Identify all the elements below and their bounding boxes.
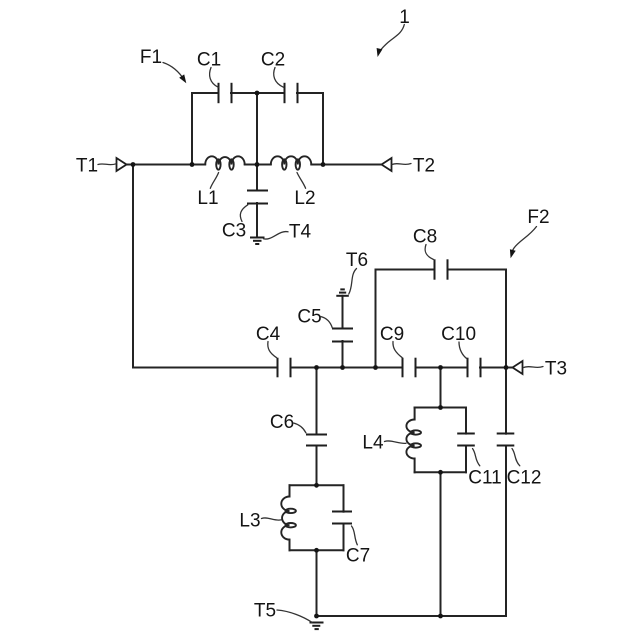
label C8 with leader — [413, 226, 437, 259]
capacitor C8 — [435, 259, 448, 279]
wire: C1 to top-center node — [231, 92, 257, 94]
svg-text:T2: T2 — [413, 155, 435, 176]
label T6 with leader — [346, 250, 368, 294]
wire: L3 tank left above coil — [289, 485, 291, 496]
label C6 with leader — [270, 412, 306, 433]
wire: F2 left node to C9 — [376, 367, 403, 369]
capacitor C10 — [468, 358, 481, 378]
wire: L4 tank right above C11 — [465, 408, 467, 434]
svg-text:T1: T1 — [76, 155, 98, 176]
wire: L2 to F1 right corner — [311, 164, 323, 166]
capacitor C3 — [247, 191, 268, 204]
svg-text:C2: C2 — [261, 49, 285, 70]
capacitor C11 — [457, 434, 475, 446]
svg-text:C1: C1 — [197, 49, 221, 70]
label L4 with leader — [362, 432, 406, 453]
svg-text:F1: F1 — [140, 47, 162, 68]
wire: F2 right vertical side — [505, 270, 507, 368]
label L3 with leader — [239, 510, 281, 531]
svg-text:L3: L3 — [239, 510, 260, 531]
label 1 (figure reference) with arrow — [377, 7, 410, 57]
svg-text:C12: C12 — [507, 467, 542, 488]
wire: T1 node vertical drop — [132, 165, 134, 368]
wire: L4 tank left above coil — [414, 408, 416, 420]
node F1 bottom-right — [321, 162, 326, 167]
label C10 with leader — [441, 324, 476, 359]
node C6 branch — [314, 365, 319, 370]
label C2 with leader — [261, 49, 285, 87]
wire: lower main wire left segment to C4 — [133, 367, 277, 369]
node F1 bottom-left — [190, 162, 195, 167]
node L4 tank top — [438, 405, 443, 410]
node L4 branch — [438, 365, 443, 370]
node L3 tank top — [314, 483, 319, 488]
svg-text:L1: L1 — [197, 188, 218, 209]
label C9 with leader — [380, 324, 404, 358]
terminal T2 triangle — [382, 158, 392, 171]
node L4 tank bottom — [438, 470, 443, 475]
wire: C5 down to lower main wire — [342, 341, 344, 368]
label T5 with leader — [254, 600, 312, 622]
inductor L4 — [406, 420, 421, 459]
svg-text:C8: C8 — [413, 226, 437, 247]
svg-text:C11: C11 — [468, 467, 501, 488]
node at T1 — [131, 162, 136, 167]
label L2 with leader — [294, 173, 315, 210]
wire: center column from top node through main wire to C3 — [256, 93, 258, 191]
capacitor C7 — [332, 512, 352, 524]
wire: F1 left corner to L1 — [192, 164, 205, 166]
wire: F2 top left segment to C8 — [376, 269, 435, 271]
label T4 with leader — [264, 221, 312, 242]
wire: L4 tank right below C11 — [465, 446, 467, 473]
node F1 bottom-center — [255, 162, 260, 167]
wire: L1 to center node — [245, 164, 271, 166]
label C3 with leader — [222, 205, 248, 242]
terminal T3 triangle — [513, 361, 523, 374]
terminal T6 inverted ground symbol — [336, 289, 349, 295]
wire: L3 tank left below coil — [289, 540, 291, 551]
label C1 with leader — [197, 49, 221, 87]
wire: C6 to L3 tank top node — [316, 446, 318, 486]
svg-text:C6: C6 — [270, 412, 294, 433]
inductor L2 — [271, 156, 312, 169]
inductor L3 — [281, 497, 296, 540]
svg-text:T5: T5 — [254, 600, 276, 621]
wire: C9 to L4 node — [416, 367, 468, 369]
wire: C8 to F2 top right corner — [448, 269, 507, 271]
wire: F1 right corner to T2 terminal — [323, 164, 382, 166]
wire: F1 right vertical side — [322, 93, 324, 165]
label F2 with arrow to filter box — [510, 207, 550, 258]
svg-text:L4: L4 — [362, 432, 384, 453]
wire: F1 left vertical side — [191, 93, 193, 165]
wire: T3 node down to C12 — [505, 368, 507, 434]
label C7 with leader — [346, 526, 370, 566]
wire: L3 tank bottom side — [290, 549, 344, 551]
node T3 — [504, 365, 509, 370]
capacitor C9 — [403, 358, 416, 378]
svg-text:T6: T6 — [346, 250, 368, 271]
svg-text:T3: T3 — [545, 358, 567, 379]
wire: C6 node down to C6 — [316, 368, 318, 435]
terminal T1 triangle — [117, 158, 127, 171]
label T2 with leader — [392, 155, 435, 176]
wire: top-center node to C2 — [257, 92, 284, 94]
ground T4 — [250, 238, 265, 245]
label L1 with leader — [197, 173, 218, 210]
wire: L3 tank bottom node to T5 ground node — [316, 550, 318, 616]
wire: F2 left vertical side — [375, 270, 377, 368]
node L3 tank bottom — [314, 548, 319, 553]
wire: C2 to F1 top right corner — [297, 92, 323, 94]
wire: T3 node to T3 terminal apex — [506, 367, 513, 369]
node L4 at ground bus — [438, 614, 443, 619]
node T5 ground — [314, 614, 319, 619]
label F1 with arrow to filter box — [140, 47, 186, 83]
wire: T1 junction to F1 left corner — [133, 164, 192, 166]
wire: bottom ground bus — [317, 615, 507, 617]
wire: C12 down to ground bus corner — [505, 446, 507, 616]
node C5 branch — [340, 365, 345, 370]
ground T5 — [310, 623, 324, 630]
svg-text:F2: F2 — [527, 207, 549, 228]
capacitor C2 — [285, 83, 298, 103]
wire: L4 node down to L4 tank top — [440, 368, 442, 408]
svg-text:C5: C5 — [297, 306, 321, 327]
wire: L3 tank right above C7 — [343, 485, 345, 511]
label C12 with leader — [507, 449, 542, 489]
wire: L4 tank bottom side — [415, 471, 466, 473]
wire: L4 tank top side — [415, 407, 466, 409]
wire: C3 to T4 ground — [256, 203, 258, 237]
wire: C10 to T3 node — [480, 367, 506, 369]
wire: T6 symbol down to C5 — [342, 296, 344, 329]
svg-text:C9: C9 — [380, 324, 404, 345]
inductor L1 — [205, 156, 245, 169]
svg-text:C7: C7 — [346, 545, 370, 566]
capacitor C4 — [278, 358, 291, 378]
label C5 with leader — [297, 306, 332, 328]
label C11 with leader — [468, 449, 501, 489]
svg-text:T4: T4 — [289, 221, 312, 242]
label T1 with leader — [76, 155, 116, 176]
wire: L3 tank right below C7 — [343, 524, 345, 551]
capacitor C12 — [497, 434, 515, 446]
capacitor C1 — [219, 83, 232, 103]
wire: F1 top left segment to C1 — [192, 92, 219, 94]
svg-text:C3: C3 — [222, 220, 246, 241]
node F2 left — [373, 365, 378, 370]
wire: L4 tank bottom to ground bus — [440, 472, 442, 616]
svg-text:L2: L2 — [294, 188, 315, 209]
wire: L3 tank top side — [290, 484, 344, 486]
label T3 with leader — [524, 358, 568, 379]
wire: C4 to C5 node — [291, 367, 376, 369]
wire: T1 apex to junction — [127, 164, 134, 166]
capacitor C6 — [306, 435, 327, 446]
capacitor C5 — [332, 329, 353, 342]
label C4 with leader — [256, 324, 281, 358]
wire: L4 tank left below coil — [414, 459, 416, 473]
node F1 top-center — [255, 91, 260, 96]
